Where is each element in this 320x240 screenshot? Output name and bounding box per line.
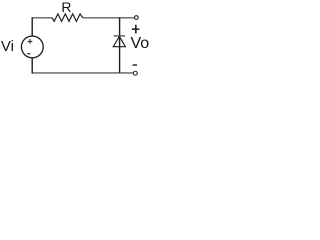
output minus sign <box>133 64 137 66</box>
diode D (triangle) <box>113 36 125 46</box>
wire bottom horizontal <box>32 72 134 74</box>
terminal bottom right (open circle) <box>133 71 137 75</box>
polarity plus inside source <box>28 39 33 44</box>
diode cathode bar <box>114 35 126 37</box>
wire top horizontal <box>32 17 135 19</box>
label Vi <box>1 38 14 55</box>
terminal top right (open circle) <box>134 16 138 20</box>
output plus sign <box>132 25 140 34</box>
voltage source Vi (circle) <box>21 36 43 58</box>
polarity minus inside source <box>27 53 30 55</box>
label Vo <box>131 35 150 53</box>
wire left vertical (source to bottom wire) <box>31 58 33 74</box>
wire diode branch vertical <box>119 17 121 73</box>
resistor R <box>52 14 83 22</box>
wire left vertical (source to top wire) <box>31 17 33 36</box>
label R <box>61 0 71 15</box>
